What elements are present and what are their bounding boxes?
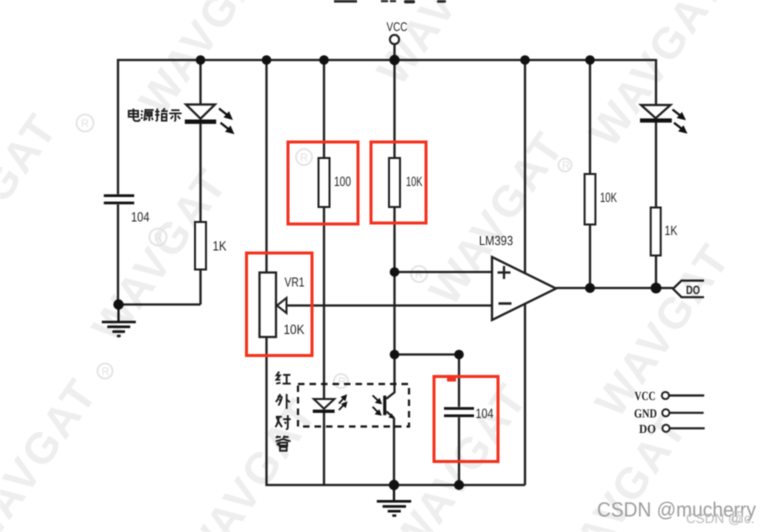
svg-text:1K: 1K (665, 223, 678, 238)
dashed box IR pair (298, 384, 409, 427)
VCC terminal circle (390, 35, 399, 44)
wire top power rail (117, 59, 656, 61)
wire C2 branch lower (458, 417, 460, 485)
LED D1 power indicator (185, 105, 233, 133)
svg-text:DO: DO (686, 283, 700, 297)
svg-text:R: R (154, 232, 162, 244)
svg-text:R: R (415, 269, 423, 281)
Q1 incident light arrows (373, 395, 381, 414)
node output junction R6 (651, 283, 662, 294)
connector pin VCC (662, 392, 704, 399)
wire node A to op-amp plus input (395, 271, 493, 273)
resistor R5 10K (585, 174, 596, 225)
svg-text:R: R (102, 366, 110, 378)
wire VR1 branch top (265, 59, 267, 273)
heading text fragment cropped at top (334, 0, 446, 3)
red notch on C2 box (447, 376, 456, 382)
wire IR LED to bottom rail (323, 413, 325, 485)
svg-text:c.: c. (744, 511, 755, 526)
pin + (non-inverting input) (498, 266, 511, 279)
node junction (319, 55, 329, 65)
node B junction (390, 350, 400, 360)
capacitor C1 104 (104, 194, 134, 204)
svg-text:R: R (81, 118, 89, 130)
源 (141, 110, 154, 121)
IR LED D3 (313, 396, 347, 413)
capacitor C2 104 (444, 407, 474, 417)
wire LED1 to R2 (199, 124, 201, 222)
wire left branch lower (C1 to ground node) (117, 205, 119, 306)
connector pin GND (662, 409, 703, 416)
svg-text:DO: DO (639, 422, 656, 436)
resistor R6 1K (651, 208, 661, 256)
svg-text:R: R (338, 376, 346, 388)
wire LED1 branch top (199, 59, 201, 105)
svg-text:10K: 10K (600, 190, 617, 205)
svg-text:104: 104 (476, 406, 494, 421)
svg-text:104: 104 (131, 210, 150, 225)
wire C2 branch upper (458, 355, 460, 407)
示 (169, 110, 181, 121)
wire op-amp output to DO flag (556, 287, 673, 289)
resistor R2 1K (195, 222, 206, 270)
node VCC junction (389, 55, 399, 65)
wire bottom ground rail (265, 484, 525, 486)
VR1 wiper arrow (277, 298, 287, 313)
指 (155, 108, 168, 120)
wire ground-node to R2 bottom (118, 303, 201, 305)
svg-text:LM393: LM393 (479, 233, 513, 248)
node junction (262, 55, 272, 65)
wire VR1 wiper to op-amp minus input (286, 304, 492, 306)
管 (276, 436, 291, 451)
node junction (520, 55, 530, 65)
node A junction (plus input) (390, 267, 400, 277)
wire R5 branch top (589, 59, 591, 174)
label 电源指示 (power indicator) hand-drawn glyphs (129, 108, 182, 121)
wire R5 to output node (589, 225, 591, 289)
LED D2 (640, 105, 686, 132)
phototransistor Q1 (373, 385, 395, 419)
wire R3 branch top (323, 59, 325, 158)
resistor R4 10K (389, 158, 400, 207)
wire comparator supply branch (524, 59, 526, 485)
node junction (585, 55, 595, 65)
对 (275, 415, 290, 429)
svg-text:R: R (300, 152, 308, 164)
node junction bottom rail ground (389, 480, 399, 490)
node junction C2 top (454, 350, 464, 360)
node junction bottom rail C2 (454, 480, 464, 490)
外 (276, 394, 290, 409)
label 红外对管 (IR pair) hand-drawn glyphs (275, 372, 290, 451)
wire R4 branch top (393, 59, 395, 158)
svg-text:VCC: VCC (387, 20, 408, 34)
red highlight box around C2 (434, 377, 498, 462)
Q1 emitter (386, 412, 394, 419)
ground symbol left (102, 305, 136, 336)
potentiometer VR1 10K (260, 273, 287, 338)
svg-text:GND: GND (634, 406, 657, 420)
red highlight box around R3 (288, 142, 358, 224)
red highlight box around VR1 (247, 253, 313, 356)
wire LED2 to R6 (655, 122, 657, 207)
wire node B to C2 (395, 353, 460, 355)
junction dots top rail (113, 55, 661, 490)
wire VCC stub (393, 44, 395, 60)
wire VR1 bottom to bottom rail (265, 337, 267, 485)
red highlight box around R4 (371, 142, 426, 223)
op-amp U1 LM393 comparator (492, 257, 556, 320)
resistor R3 100 (319, 158, 330, 207)
红 (276, 372, 291, 384)
wire LED2 branch top (655, 59, 657, 105)
电 (129, 109, 140, 121)
ground symbol bottom (377, 485, 411, 516)
DO output flag (673, 281, 704, 298)
wire Q1 emitter to bottom rail (393, 418, 395, 485)
node output junction R5 (585, 283, 595, 293)
svg-text:VR1: VR1 (285, 275, 305, 290)
wire R6 to output node (655, 255, 657, 288)
wire R4 to node A and node B (393, 207, 395, 385)
wire R3 to IR LED (323, 207, 325, 399)
connector pin DO (662, 425, 704, 432)
wire R2 bottom (199, 270, 201, 305)
pin - (inverting input) (499, 302, 512, 305)
svg-text:100: 100 (334, 174, 351, 189)
node junction (196, 55, 206, 65)
svg-text:10K: 10K (406, 174, 423, 189)
node ground junction left (113, 299, 123, 309)
Q1 collector (386, 385, 394, 399)
svg-text:VCC: VCC (635, 389, 656, 403)
svg-text:1K: 1K (213, 239, 227, 254)
wire left branch upper (L1 top to C1) (117, 59, 119, 194)
svg-text:10K: 10K (284, 322, 305, 337)
svg-text:R: R (562, 160, 570, 172)
